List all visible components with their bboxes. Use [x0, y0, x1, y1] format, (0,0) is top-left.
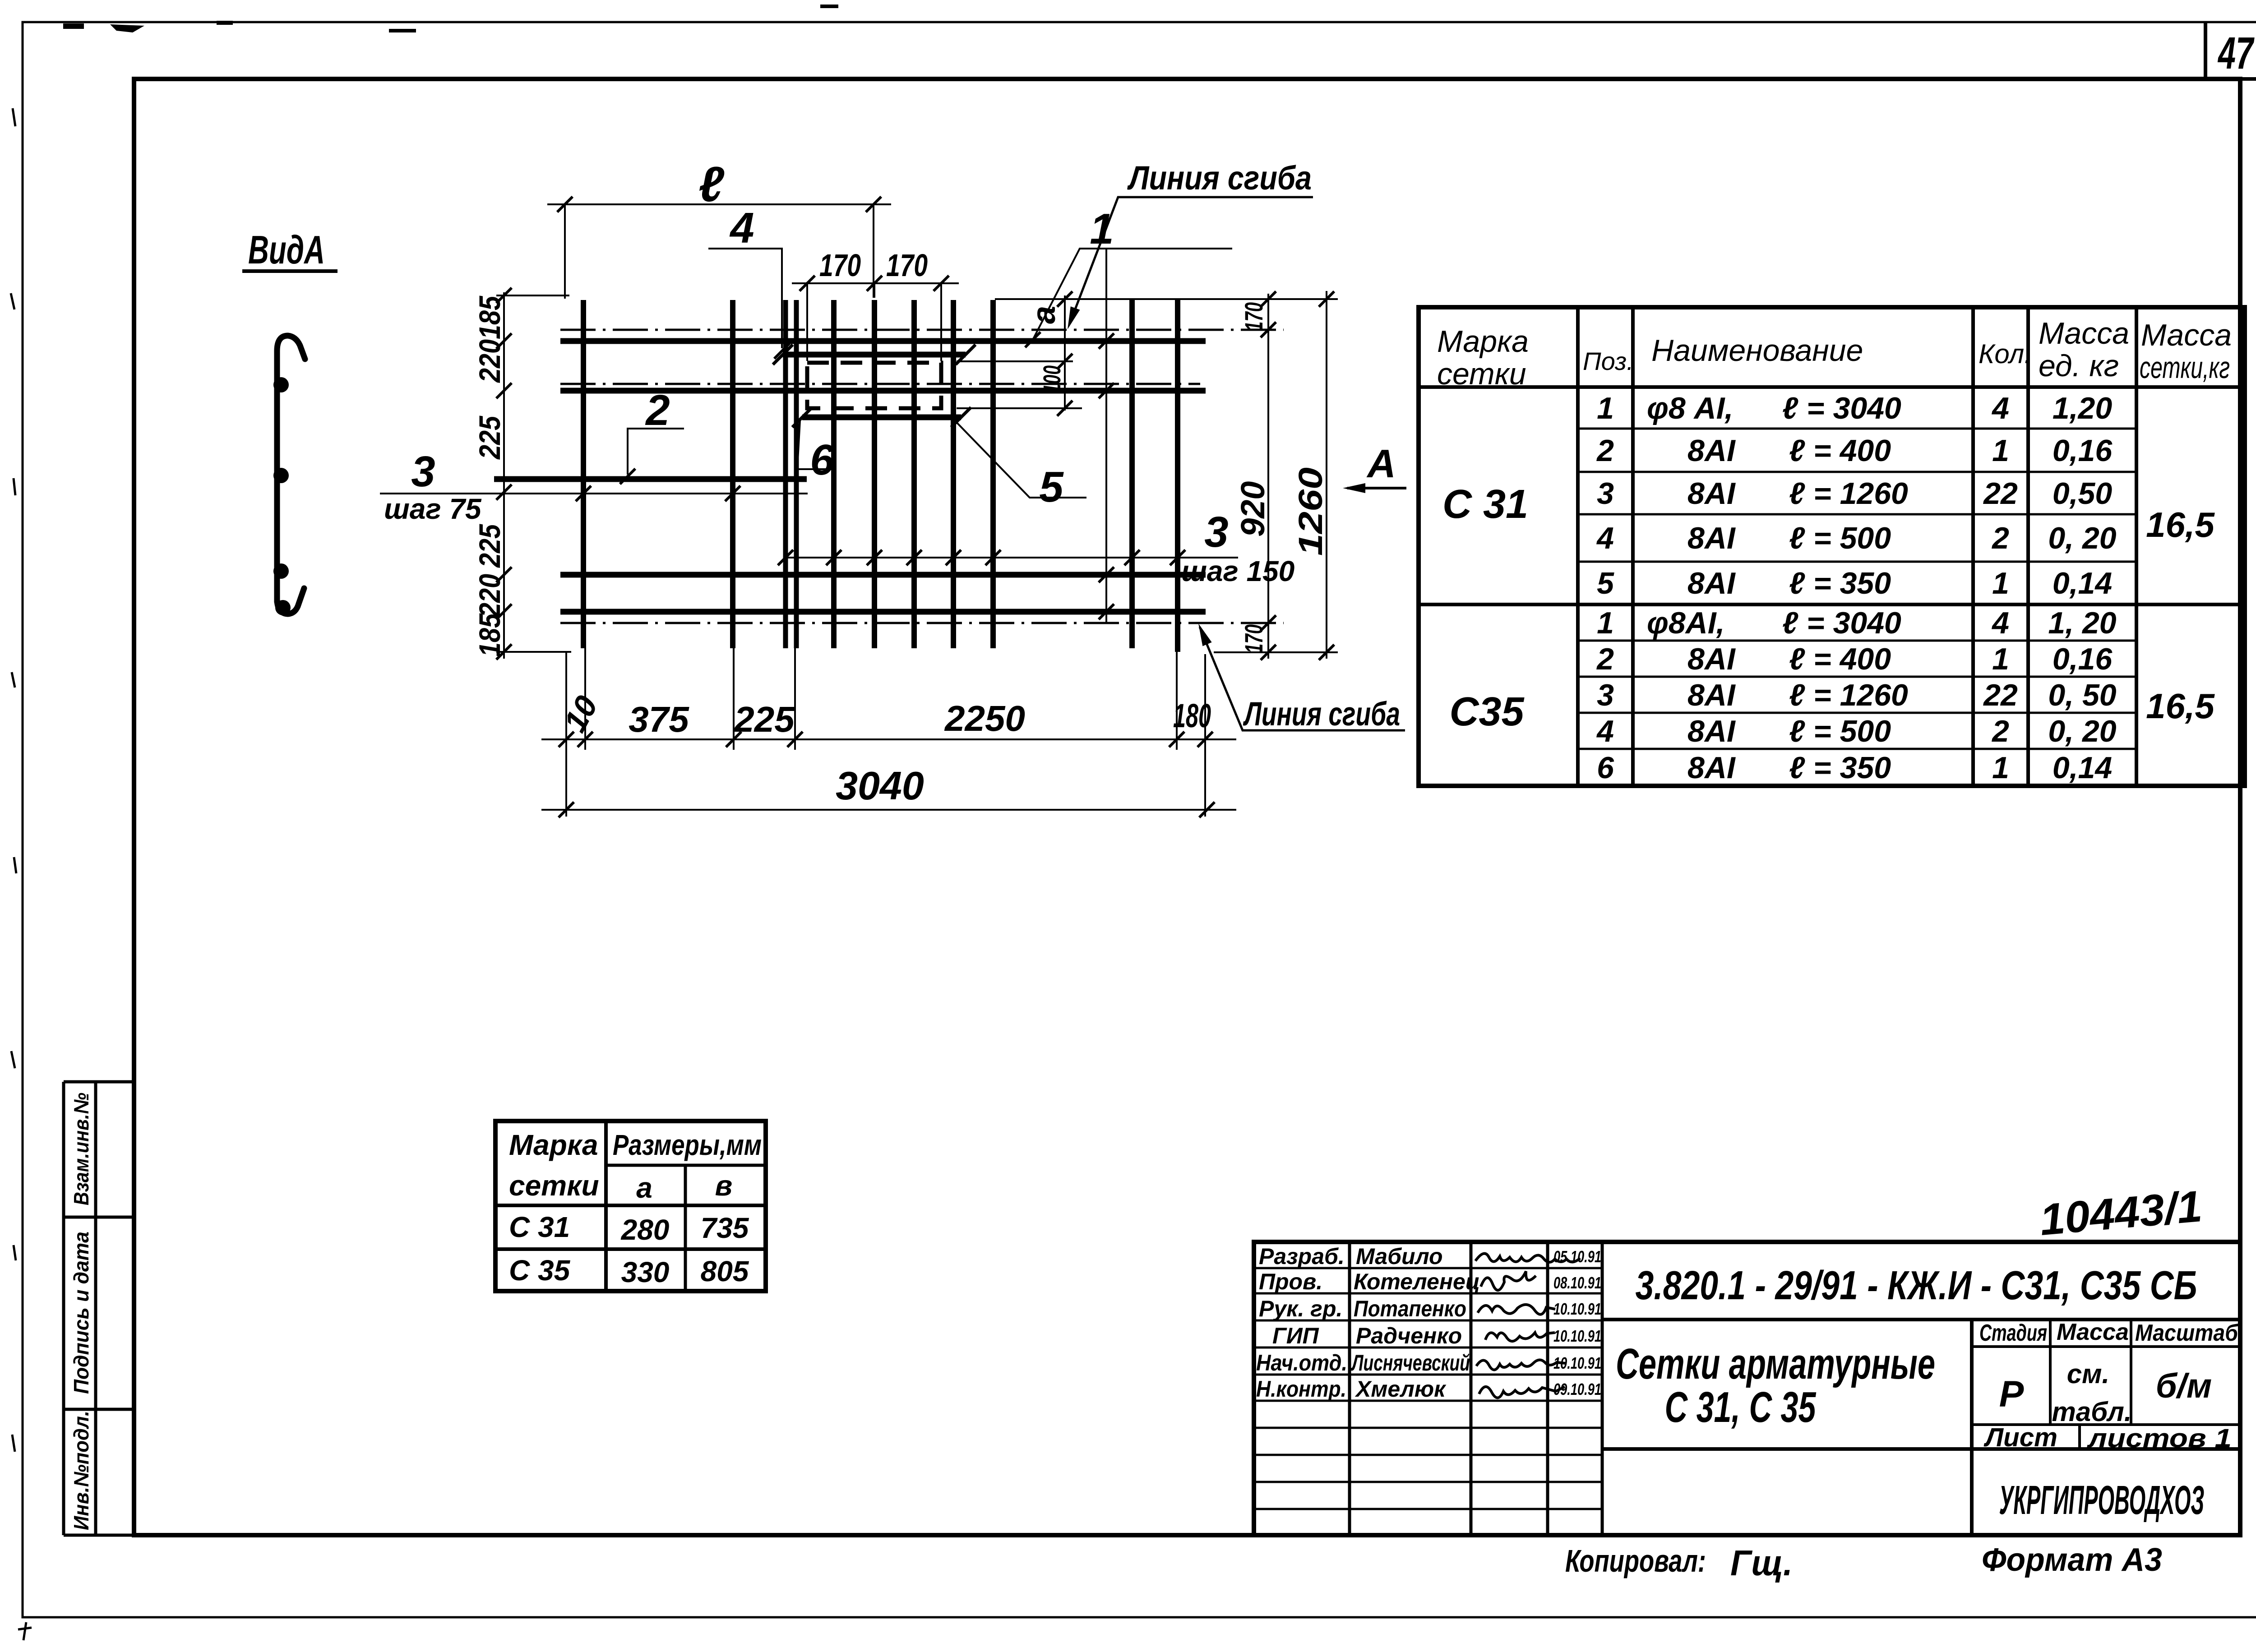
svg-text:10.10.91: 10.10.91 — [1553, 1300, 1601, 1318]
svg-text:Разраб.: Разраб. — [1259, 1244, 1345, 1269]
svg-text:ед. кг: ед. кг — [2039, 349, 2119, 383]
dim 1260 — [1292, 291, 1334, 660]
svg-text:Котеленец: Котеленец — [1354, 1269, 1480, 1294]
svg-text:шаг 150: шаг 150 — [1181, 555, 1294, 587]
svg-text:805: 805 — [701, 1255, 749, 1287]
svg-text:375: 375 — [629, 699, 689, 739]
svg-text:1: 1 — [1992, 751, 2009, 785]
label 3 шаг 150 — [778, 508, 1294, 587]
dashed outline of alternate bar zone — [807, 363, 941, 408]
svg-text:Инв.№подл.: Инв.№подл. — [69, 1411, 93, 1530]
signatures — [1475, 1254, 1580, 1398]
label 5 with leader — [953, 419, 1086, 511]
svg-text:2: 2 — [1991, 714, 2009, 748]
svg-text:листов 1: листов 1 — [2087, 1424, 2232, 1453]
label Линия сгиба top — [1063, 159, 1313, 331]
svg-text:16,5: 16,5 — [2146, 505, 2215, 545]
svg-text:Нач.отд.: Нач.отд. — [1256, 1350, 1347, 1375]
svg-text:ℓ: ℓ — [698, 157, 725, 212]
svg-text:08.10.91: 08.10.91 — [1553, 1274, 1601, 1292]
longitudinal bar pos1 c — [560, 572, 1206, 578]
svg-text:1: 1 — [1992, 434, 2009, 468]
svg-text:Пров.: Пров. — [1259, 1269, 1322, 1294]
break line through mesh — [1105, 249, 1107, 623]
svg-text:3.820.1 - 29/91 - КЖ.И - С31,: 3.820.1 - 29/91 - КЖ.И - С31, С35 СБ — [1636, 1263, 2197, 1308]
svg-text:С 31, С 35: С 31, С 35 — [1665, 1383, 1817, 1431]
svg-text:225: 225 — [733, 699, 795, 739]
svg-text:47: 47 — [2218, 28, 2255, 78]
svg-text:Линия сгиба: Линия сгиба — [1127, 159, 1312, 197]
section arrow A — [1343, 441, 1406, 493]
svg-text:2: 2 — [1991, 521, 2009, 555]
svg-text:1260: 1260 — [1292, 467, 1329, 556]
svg-text:170: 170 — [1239, 302, 1268, 331]
svg-text:ℓ = 500: ℓ = 500 — [1789, 521, 1891, 555]
dim l (development length) — [547, 157, 891, 299]
svg-text:0,16: 0,16 — [2053, 642, 2113, 676]
svg-text:8АI: 8АI — [1687, 678, 1736, 712]
svg-text:4: 4 — [1596, 521, 1614, 555]
svg-text:Н.контр.: Н.контр. — [1256, 1376, 1346, 1402]
svg-text:см.: см. — [2067, 1359, 2109, 1389]
svg-text:10.10.91: 10.10.91 — [1553, 1354, 1601, 1372]
svg-text:220: 220 — [473, 574, 506, 618]
svg-text:1: 1 — [1992, 566, 2009, 600]
svg-text:3: 3 — [1597, 476, 1614, 511]
stage mass scale headers — [1979, 1319, 2239, 1346]
svg-text:0,16: 0,16 — [2053, 434, 2113, 468]
svg-text:100: 100 — [1039, 365, 1066, 393]
title block names — [1351, 1244, 1480, 1402]
title block outline — [1254, 1242, 2240, 1535]
svg-text:ℓ = 3040: ℓ = 3040 — [1782, 391, 1901, 425]
svg-text:сетки,кг: сетки,кг — [2140, 351, 2230, 385]
svg-text:6: 6 — [1597, 751, 1614, 785]
bar pos2 (partial, l=400) — [494, 476, 807, 482]
svg-text:170: 170 — [819, 248, 861, 283]
bottom dim 3040 — [541, 763, 1236, 817]
svg-text:180: 180 — [1173, 697, 1211, 734]
svg-text:а: а — [1026, 306, 1062, 324]
svg-text:185: 185 — [473, 613, 506, 657]
dim 170 top right — [1239, 291, 1276, 337]
svg-text:Радченко: Радченко — [1356, 1323, 1462, 1348]
svg-text:1, 20: 1, 20 — [2048, 606, 2116, 640]
cross bar pos3 no.3 — [831, 300, 837, 648]
svg-text:8АI: 8АI — [1687, 434, 1736, 468]
svg-text:1: 1 — [1090, 205, 1114, 253]
svg-text:ℓ = 500: ℓ = 500 — [1789, 714, 1891, 748]
svg-text:ℓ = 350: ℓ = 350 — [1789, 751, 1891, 785]
svg-text:ℓ = 400: ℓ = 400 — [1789, 642, 1891, 676]
svg-text:0,50: 0,50 — [2053, 476, 2113, 511]
svg-text:Масса: Масса — [2039, 316, 2129, 351]
svg-text:б/м: б/м — [2156, 1367, 2212, 1405]
svg-text:а: а — [636, 1172, 652, 1204]
sheet counters — [1983, 1423, 2232, 1453]
svg-text:сетки: сетки — [1437, 357, 1526, 391]
svg-text:Линия сгиба: Линия сгиба — [1243, 695, 1400, 733]
stage mass scale values — [1999, 1359, 2212, 1427]
svg-text:330: 330 — [621, 1256, 670, 1288]
cross bar pos3 no.5 — [911, 300, 917, 648]
bar cross-section dots — [273, 377, 289, 392]
svg-text:ℓ = 400: ℓ = 400 — [1789, 434, 1891, 468]
page number box 47 — [2205, 22, 2256, 79]
svg-text:Мабило: Мабило — [1356, 1244, 1443, 1269]
svg-text:Наименование: Наименование — [1651, 333, 1863, 368]
svg-text:8АI: 8АI — [1687, 521, 1736, 555]
svg-text:УКРГИПРОВОДХОЗ: УКРГИПРОВОДХОЗ — [1999, 1478, 2205, 1523]
svg-text:Взам.инв.№: Взам.инв.№ — [69, 1093, 93, 1205]
svg-text:8АI: 8АI — [1687, 714, 1736, 748]
svg-text:09.10.91: 09.10.91 — [1553, 1380, 1601, 1398]
svg-text:4: 4 — [1991, 391, 2009, 425]
label 6 with leader — [797, 420, 834, 484]
svg-text:С 31: С 31 — [509, 1211, 570, 1243]
svg-text:16,5: 16,5 — [2146, 686, 2215, 726]
svg-text:Масса: Масса — [2141, 318, 2232, 352]
svg-text:φ8 АI,: φ8 АI, — [1647, 391, 1733, 425]
dim a at detail — [957, 291, 1082, 416]
cross bar pos3 no.1 — [581, 300, 586, 648]
fold line mid (dash-dot) — [560, 383, 1200, 385]
table body C35 — [1449, 606, 2215, 785]
svg-text:225: 225 — [473, 415, 506, 460]
label Линия сгиба bottom — [1194, 622, 1405, 733]
bar pos6 (l=350, C35 variant) — [802, 415, 961, 420]
view A title — [242, 227, 337, 272]
label 2 with leader — [620, 386, 684, 484]
svg-text:ВидА: ВидА — [248, 227, 325, 272]
svg-text:2: 2 — [645, 386, 670, 434]
svg-text:Р: Р — [1999, 1374, 2024, 1415]
svg-text:3: 3 — [1597, 678, 1614, 712]
svg-text:Лиснячевский: Лиснячевский — [1351, 1350, 1470, 1375]
svg-text:280: 280 — [621, 1214, 670, 1246]
dates — [1553, 1247, 1601, 1398]
svg-text:4: 4 — [729, 204, 754, 252]
svg-text:ℓ = 1260: ℓ = 1260 — [1789, 476, 1908, 511]
table headers — [1437, 316, 2232, 391]
mesh sizes table — [495, 1121, 766, 1291]
svg-text:2250: 2250 — [944, 698, 1025, 738]
dim 920 — [1234, 481, 1271, 537]
right dim extension lines — [995, 291, 1338, 659]
cross bar pos3 no.4 — [872, 300, 877, 648]
svg-text:φ8АI,: φ8АI, — [1647, 606, 1725, 640]
svg-text:1: 1 — [1597, 606, 1614, 640]
svg-text:3: 3 — [1204, 508, 1228, 556]
scan marks left margin — [11, 108, 32, 1640]
svg-text:920: 920 — [1234, 481, 1271, 537]
cross bar pos3 no.9 — [1175, 300, 1180, 652]
cross bar pos3 no.8 — [1129, 300, 1135, 648]
svg-text:170: 170 — [886, 248, 928, 283]
svg-text:С 31: С 31 — [1442, 482, 1528, 527]
svg-text:22: 22 — [1983, 476, 2018, 511]
svg-text:ℓ = 1260: ℓ = 1260 — [1789, 678, 1908, 712]
svg-text:170: 170 — [1239, 624, 1268, 653]
svg-text:3: 3 — [411, 448, 435, 496]
svg-text:8АI: 8АI — [1687, 476, 1736, 511]
svg-text:Копировал:: Копировал: — [1565, 1543, 1706, 1578]
svg-text:С 35: С 35 — [509, 1254, 571, 1287]
svg-text:Лист: Лист — [1983, 1423, 2057, 1452]
svg-text:3040: 3040 — [836, 763, 924, 808]
cross bar pos3 no.2 — [730, 300, 735, 648]
svg-text:в: в — [715, 1169, 733, 1202]
svg-text:1,20: 1,20 — [2053, 391, 2113, 425]
svg-text:А: А — [1366, 441, 1396, 486]
svg-text:8АI: 8АI — [1687, 566, 1736, 600]
svg-text:Хмелюк: Хмелюк — [1355, 1376, 1447, 1402]
left dimension chain line — [473, 288, 571, 660]
table body C31 — [1442, 391, 2215, 600]
svg-text:10.10.91: 10.10.91 — [1553, 1327, 1601, 1345]
svg-text:ℓ = 3040: ℓ = 3040 — [1782, 606, 1901, 640]
svg-text:225: 225 — [473, 524, 506, 568]
longitudinal bar pos1 b — [560, 388, 1206, 394]
dim 170 bottom right — [1239, 615, 1276, 660]
svg-text:0,14: 0,14 — [2053, 566, 2112, 600]
svg-text:2: 2 — [1596, 434, 1614, 468]
copied-by note — [1565, 1543, 1793, 1583]
label 4 with leader — [708, 204, 790, 359]
svg-text:8АI: 8АI — [1687, 642, 1736, 676]
title block role labels — [1256, 1244, 1347, 1402]
bar pos5 (l=350) — [783, 352, 966, 358]
cross bar pos3 no.7 — [990, 300, 996, 648]
svg-text:05.10.91: 05.10.91 — [1553, 1247, 1601, 1266]
svg-text:сетки: сетки — [509, 1169, 599, 1202]
svg-text:0, 20: 0, 20 — [2048, 521, 2116, 555]
svg-text:Сетки арматурные: Сетки арматурные — [1616, 1340, 1935, 1388]
svg-text:Размеры,мм: Размеры,мм — [613, 1129, 762, 1161]
svg-text:1: 1 — [1597, 391, 1614, 425]
svg-text:С35: С35 — [1449, 689, 1525, 734]
svg-text:табл.: табл. — [2052, 1397, 2131, 1427]
svg-text:5: 5 — [1039, 463, 1064, 511]
svg-text:Потапенко: Потапенко — [1354, 1296, 1466, 1321]
bottom dim row 10 375 225 2250 180 — [541, 690, 1236, 747]
bent bar profile (view A) — [273, 336, 305, 615]
svg-text:Марка: Марка — [1437, 324, 1529, 359]
svg-text:6: 6 — [810, 436, 834, 484]
sidebar stamp boxes — [64, 1082, 134, 1535]
svg-text:Масштаб: Масштаб — [2135, 1320, 2239, 1346]
label 1 with leader — [1025, 205, 1232, 347]
svg-text:Формат А3: Формат А3 — [1982, 1542, 2162, 1578]
fold line bottom (dash-dot) — [560, 622, 1284, 624]
svg-text:8АI: 8АI — [1687, 751, 1736, 785]
svg-text:1: 1 — [1992, 642, 2009, 676]
cross bar pos3 no.6 — [951, 300, 956, 648]
svg-text:Поз.: Поз. — [1583, 347, 1634, 375]
svg-text:Стадия: Стадия — [1979, 1320, 2047, 1346]
cross bars pos4 (double) — [786, 300, 796, 648]
svg-text:0,14: 0,14 — [2053, 751, 2112, 785]
fold line top (dash-dot) — [560, 329, 1284, 331]
svg-text:0, 50: 0, 50 — [2048, 678, 2116, 712]
scan blobs on top border — [63, 5, 838, 32]
svg-text:2: 2 — [1596, 642, 1614, 676]
longitudinal bar pos1 a — [560, 338, 1206, 344]
svg-text:4: 4 — [1596, 714, 1614, 748]
svg-text:0, 20: 0, 20 — [2048, 714, 2116, 748]
bottom dim extension lines — [566, 648, 1205, 817]
svg-text:22: 22 — [1983, 678, 2018, 712]
svg-text:Марка: Марка — [509, 1129, 598, 1161]
svg-text:Гщ.: Гщ. — [1730, 1543, 1793, 1583]
svg-text:Масса: Масса — [2057, 1319, 2129, 1345]
specification table grid — [1419, 307, 2245, 786]
svg-text:220: 220 — [473, 339, 506, 383]
longitudinal bar pos1 d — [560, 609, 1206, 615]
svg-text:Подпись и дата: Подпись и дата — [69, 1232, 93, 1394]
svg-text:735: 735 — [701, 1212, 749, 1244]
svg-text:Кол.: Кол. — [1979, 339, 2032, 369]
label 3 шаг 75 — [380, 448, 808, 525]
svg-text:ℓ = 350: ℓ = 350 — [1789, 566, 1891, 600]
dim 170 170 at detail — [792, 248, 959, 361]
svg-text:ГИП: ГИП — [1272, 1323, 1319, 1348]
svg-text:Рук. гр.: Рук. гр. — [1259, 1296, 1342, 1321]
svg-text:шаг 75: шаг 75 — [384, 493, 482, 525]
svg-text:5: 5 — [1597, 566, 1614, 600]
svg-text:4: 4 — [1991, 606, 2009, 640]
svg-text:185: 185 — [473, 295, 506, 339]
